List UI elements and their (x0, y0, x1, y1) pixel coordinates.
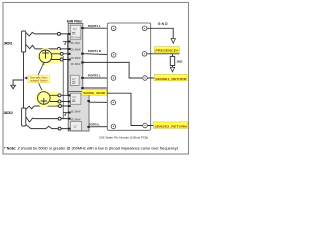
header pin 2L (111, 53, 116, 58)
highlight blob switch J2 (35, 90, 60, 107)
svg-text:NC 6MnF: NC 6MnF (71, 119, 81, 121)
filter component FB4 (70, 122, 81, 131)
filter value text row 1 (71, 43, 81, 45)
chassis arrow J1 (64, 42, 66, 45)
node PRESENCE# label (154, 47, 179, 53)
wire to pin 4L (89, 101, 111, 103)
EMI filter box upper U1 (68, 24, 83, 92)
svg-text:PORT1 R: PORT1 R (88, 49, 102, 53)
jack J2 tip contact (26, 106, 34, 110)
svg-text:SENSE_SEND: SENSE_SEND (83, 91, 106, 95)
wire J2 shield vertical (62, 56, 64, 119)
node PORT1 R label (88, 49, 102, 53)
svg-text:JACK 2: JACK 2 (3, 111, 13, 115)
svg-text:C₁*: C₁* (73, 27, 77, 31)
chassis arrow J2 (64, 113, 66, 116)
wire J1 switch a (51, 53, 68, 55)
filter component FB3 (70, 93, 81, 104)
svg-text:C₁*: C₁* (72, 77, 76, 81)
wire ground tap (13, 80, 23, 85)
junction circle J2 sleeve (58, 127, 61, 130)
wire SENSE1_RETURN (147, 77, 187, 79)
EMI Filter label (67, 19, 83, 23)
wire SENSE2_RETURN (147, 125, 187, 127)
filter value text row 4 (71, 64, 81, 66)
svg-text:1KΩ: 1KΩ (176, 59, 183, 63)
wire J1 shield stub to EMI (63, 41, 68, 43)
svg-text:PORT2 L: PORT2 L (89, 122, 100, 126)
header pin 3L (111, 76, 116, 81)
svg-text:C₁*: C₁* (74, 125, 78, 129)
wire J2 shield stub (63, 112, 68, 114)
isolated switch J2 (38, 92, 51, 105)
filter value text row 2 (71, 50, 81, 52)
filter value text row 6 (71, 119, 81, 121)
junction circle J2 switch b (58, 100, 61, 103)
wire PORT1 R (83, 53, 112, 56)
wire J2 switch a (50, 94, 81, 96)
node PORT2 L label (88, 73, 101, 77)
svg-text:SENSE2_RETURN: SENSE2_RETURN (154, 124, 187, 128)
note text (4, 146, 178, 150)
border frame (3, 3, 189, 155)
header pin 5R (143, 123, 148, 128)
junction circle J2 tip (59, 105, 62, 108)
svg-text:NPO33pF: NPO33pF (71, 37, 81, 39)
wire J1 ring to EMI filter (35, 48, 68, 50)
filter component FB1 (70, 25, 81, 39)
filter value text row 3 (71, 58, 81, 60)
junction circle J1 switch a (60, 52, 63, 55)
jack J1 tip contact (26, 32, 35, 36)
header pin 3R (143, 76, 148, 81)
node JACK 2 label (3, 111, 13, 115)
annotation pointer to J1 switch (38, 63, 44, 75)
wire PORT1 L (83, 27, 112, 29)
EMI pin squares left (68, 33, 71, 130)
header pin 5L (111, 124, 116, 129)
resistor R1 (170, 54, 174, 68)
jack J2 ring contact (26, 117, 35, 122)
annotation note normally open isolated switch (28, 75, 49, 83)
jack J1 body (22, 31, 26, 52)
jack J1 ring contact (26, 44, 35, 49)
wire J2 ring to EMI (35, 118, 68, 120)
jack J2 sleeve contact (26, 125, 68, 129)
wire J1 switch b (51, 59, 68, 61)
svg-text:C₁*: C₁* (73, 95, 77, 99)
header inner wire to pin 3R (83, 62, 143, 78)
ground arrow GND (171, 39, 175, 44)
highlight blob switch J1 (37, 48, 62, 65)
node SENSE2_RETURN label (153, 122, 187, 128)
junction circle J1 tip (57, 32, 60, 35)
svg-text:EMI Filter: EMI Filter (67, 19, 83, 23)
EMI filter box lower U2 (68, 92, 89, 132)
ground arrow R1 (170, 67, 174, 72)
wire sleeve bus J1 to J2 (23, 52, 25, 108)
wire SENSE_SEND (83, 87, 108, 89)
annotation arrow left (24, 77, 27, 80)
svg-text:2X5 Stake Pin Header (100mil P: 2X5 Stake Pin Header (100mil PCB) (99, 136, 148, 140)
svg-text:Isolated Switch: Isolated Switch (30, 79, 48, 83)
junction circle J2 switch a (58, 94, 61, 97)
node JACK 1 label (4, 42, 13, 46)
node SENSE_SEND label (82, 89, 107, 95)
header pin 1L (111, 26, 116, 31)
jack J2 body (22, 108, 26, 126)
isolated switch J1 (39, 50, 52, 63)
wire PORT2 L (83, 77, 111, 79)
wire J2 tip to EMI (34, 105, 80, 107)
svg-text:* Note: Z should be 600Ω or gr: * Note: Z should be 600Ω or greater @ 30… (4, 146, 178, 150)
junction circle J1 switch b (60, 58, 63, 61)
annotation pointer to J2 switch (39, 83, 44, 92)
svg-text:DC 6MnF: DC 6MnF (71, 58, 81, 60)
header J3 box (107, 23, 150, 130)
wire PRESENCE# (147, 53, 180, 55)
resistor R1 value 1K (176, 59, 183, 63)
junction circle J1 ring (57, 47, 60, 50)
filter value text row 5 (71, 112, 81, 114)
svg-text:PRESENCE#: PRESENCE# (155, 48, 178, 52)
wire J2 switch b (50, 101, 81, 103)
svg-text:PORT2 L: PORT2 L (88, 73, 101, 77)
node GND label (158, 22, 168, 26)
EMI pin squares right (81, 27, 90, 128)
svg-text:JACK 1: JACK 1 (4, 42, 13, 46)
node PORT2 R label (89, 122, 100, 126)
svg-text:PORT1 L: PORT1 L (88, 24, 101, 28)
svg-text:SENSE1_RETURN: SENSE1_RETURN (155, 77, 186, 81)
svg-text:DC 6MnF: DC 6MnF (71, 64, 81, 66)
header pin 4L (111, 100, 116, 105)
node SENSE1_RETURN label (154, 74, 187, 81)
filter component FB2 (70, 75, 79, 85)
caption 2X5 stake pin header (99, 136, 148, 140)
header pin 1R (142, 26, 147, 31)
junction circle J2 ring (58, 117, 61, 120)
svg-text:NC 6MnF: NC 6MnF (71, 112, 81, 114)
header pin 2R (142, 52, 147, 57)
svg-text:DC 33pF: DC 33pF (71, 43, 81, 45)
svg-text:GND: GND (158, 22, 168, 26)
wire GND (147, 28, 173, 38)
wire J1 shield vertical (67, 34, 69, 96)
wire PORT2 R (89, 126, 111, 128)
node PORT1 L label (88, 24, 101, 28)
header inner wire to pin 5R (107, 93, 142, 125)
svg-text:DC 6MnF: DC 6MnF (71, 50, 81, 52)
wire J1 tip to EMI filter (35, 33, 69, 35)
ground arrow (11, 85, 16, 89)
